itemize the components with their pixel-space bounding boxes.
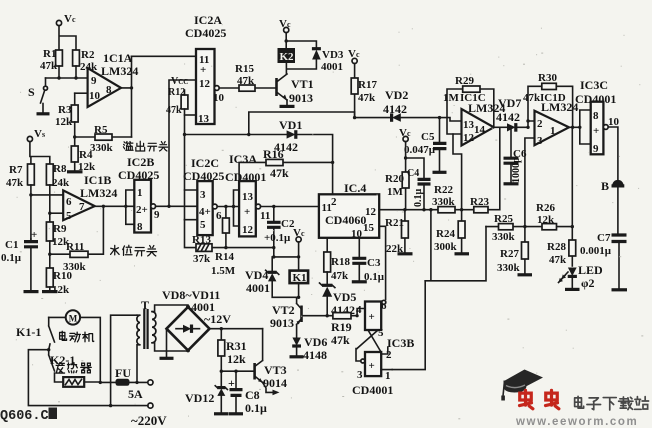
svg-text:R30: R30 xyxy=(538,72,557,84)
wire 9 to IC2C pin4 xyxy=(156,205,198,207)
svg-text:12: 12 xyxy=(242,224,254,236)
capacitor C1 (polarized) xyxy=(1,229,39,292)
svg-text:47k: 47k xyxy=(166,105,182,116)
capacitor C2 0.1u xyxy=(264,207,295,257)
svg-text:2: 2 xyxy=(331,196,337,208)
terminal Vc (top left supply) xyxy=(56,13,76,26)
svg-text:4001: 4001 xyxy=(246,281,270,295)
svg-text:K2: K2 xyxy=(280,51,295,63)
wire U-detour to R24 node xyxy=(425,210,486,281)
transistor VT1 9013 xyxy=(277,74,314,106)
svg-text:+: + xyxy=(200,64,206,76)
svg-text:4148: 4148 xyxy=(303,348,327,362)
svg-text:5: 5 xyxy=(66,210,72,222)
svg-text:IC2A: IC2A xyxy=(194,13,222,27)
resistor R11 330k (hysteresis) xyxy=(50,206,104,273)
svg-text:12: 12 xyxy=(463,132,475,144)
terminal Vs (lower supply) xyxy=(27,128,45,142)
svg-text:R1: R1 xyxy=(43,48,56,60)
resistor R3 xyxy=(55,93,78,137)
svg-text:12: 12 xyxy=(199,78,211,90)
svg-text:7: 7 xyxy=(79,201,85,213)
svg-text:14: 14 xyxy=(474,124,486,136)
svg-text:R16: R16 xyxy=(263,147,284,161)
svg-text:R17: R17 xyxy=(358,79,377,91)
svg-text:VD5: VD5 xyxy=(333,290,356,304)
resistor R16 xyxy=(239,147,333,181)
diode VD2 4142 xyxy=(383,88,408,122)
heater element (发热器) xyxy=(63,377,100,387)
wire IC2A pin13 stub xyxy=(185,114,197,116)
zener VD4 4001 xyxy=(245,268,279,295)
svg-text:CD4025: CD4025 xyxy=(185,26,226,40)
wire R26 node up to output xyxy=(571,127,573,240)
svg-text:C8: C8 xyxy=(245,388,260,402)
svg-text:37k: 37k xyxy=(193,253,211,265)
svg-text:VD12: VD12 xyxy=(185,391,214,405)
resistor R30 47k feedback xyxy=(528,72,573,127)
transistor VT2 9013 xyxy=(270,297,302,337)
resistor R22 330k xyxy=(432,184,456,213)
resistor R24 300k xyxy=(434,210,469,254)
svg-text:10: 10 xyxy=(351,228,363,240)
svg-text:S: S xyxy=(28,85,35,99)
svg-text:13: 13 xyxy=(198,113,210,125)
svg-text:φ2: φ2 xyxy=(581,276,595,290)
svg-text:330k: 330k xyxy=(90,142,114,154)
svg-text:C7: C7 xyxy=(597,232,611,244)
op-amp IC1A LM324 xyxy=(88,51,139,107)
svg-text:330k: 330k xyxy=(432,196,456,208)
NOR gate IC3B upper xyxy=(356,300,387,339)
diode VD1 4142 xyxy=(274,118,302,154)
svg-text:330k: 330k xyxy=(492,231,516,243)
svg-text:0.1μ: 0.1μ xyxy=(413,189,424,208)
resistor R20 1M xyxy=(385,158,409,210)
wire IC2C input bracket pins 3,5 xyxy=(185,190,198,220)
svg-text:9: 9 xyxy=(154,209,160,221)
svg-text:47k: 47k xyxy=(549,254,567,266)
resistor R26 12k xyxy=(536,202,557,230)
svg-text:Vc: Vc xyxy=(348,48,360,60)
wire IC1A out to IC2A pin 11 xyxy=(132,55,197,57)
watermark 电子下载站 gray characters xyxy=(575,396,649,410)
svg-text:M: M xyxy=(69,313,78,323)
switch contact K1-1 xyxy=(16,317,55,349)
wire VT3 base row xyxy=(221,370,254,372)
svg-text:4001: 4001 xyxy=(321,61,343,73)
wire input rail to pin 9 xyxy=(46,77,89,79)
LED phi2 xyxy=(559,263,604,290)
node 9 (IC2B output) xyxy=(151,204,160,221)
resistor R18 47k xyxy=(324,238,351,285)
svg-text:R25: R25 xyxy=(494,213,513,225)
svg-text:2: 2 xyxy=(537,118,543,130)
IC gate IC3C CD4001 xyxy=(575,78,616,155)
wire IC2B input bracket pins 1,8 xyxy=(126,190,135,224)
svg-text:+: + xyxy=(228,376,235,390)
svg-text:+: + xyxy=(593,125,599,137)
svg-text:VT1: VT1 xyxy=(291,77,314,91)
svg-text:K1-1: K1-1 xyxy=(16,325,41,339)
svg-text:5A: 5A xyxy=(128,387,143,401)
svg-text:~12V: ~12V xyxy=(204,312,231,326)
resistor R28 47k xyxy=(547,240,576,266)
resistor R9 xyxy=(46,222,70,268)
svg-text:1: 1 xyxy=(385,370,391,382)
svg-text:12k: 12k xyxy=(537,214,555,226)
svg-text:12: 12 xyxy=(365,206,377,218)
svg-text:1M: 1M xyxy=(387,186,404,198)
wire IC1B output to IC2B xyxy=(95,205,135,207)
svg-text:5: 5 xyxy=(200,219,206,231)
wire cross-coupling X xyxy=(356,330,392,370)
IC gate IC3A CD4001 xyxy=(225,152,266,236)
svg-text:6: 6 xyxy=(66,196,72,208)
svg-text:CD4001: CD4001 xyxy=(352,383,393,397)
label 水位开关 (water level switch) xyxy=(111,245,157,256)
IC counter IC4 CD4060 xyxy=(319,181,379,240)
capacitor C3 0.1u xyxy=(352,238,385,283)
transistor VT3 9014 xyxy=(255,329,287,390)
resistor R8 xyxy=(46,163,70,222)
transformer T xyxy=(111,298,188,406)
svg-text:+: + xyxy=(244,206,250,218)
svg-text:R14: R14 xyxy=(215,251,234,263)
diode VD7 4142 xyxy=(494,96,535,132)
watermark eeworm logo graduation cap xyxy=(501,370,543,401)
svg-text:12k: 12k xyxy=(52,284,70,296)
svg-text:R15: R15 xyxy=(235,63,254,75)
resistor R27 330k xyxy=(497,227,532,275)
svg-text:IC3C: IC3C xyxy=(580,78,608,92)
svg-text:12k: 12k xyxy=(55,116,73,128)
svg-text:47k: 47k xyxy=(358,92,376,104)
svg-text:24k: 24k xyxy=(52,177,70,189)
resistor R14 1.5M xyxy=(211,207,236,278)
svg-text:IC2C: IC2C xyxy=(191,156,219,170)
zener VD5 4142 xyxy=(320,283,357,317)
svg-text:Vc: Vc xyxy=(293,227,305,239)
svg-text:1.5M: 1.5M xyxy=(211,265,236,277)
svg-text:VD7: VD7 xyxy=(498,96,521,110)
wire gate6 output up to IC4 pin15 xyxy=(379,226,385,299)
wire 11 to IC4 xyxy=(261,206,319,208)
svg-text:+0.1μ: +0.1μ xyxy=(264,232,291,244)
svg-text:Vc: Vc xyxy=(279,18,291,30)
svg-text:IC3B: IC3B xyxy=(387,336,414,350)
wire IC1C pin12 to divider xyxy=(453,134,462,210)
svg-text:R8: R8 xyxy=(53,163,67,175)
wire IC3A input bracket xyxy=(234,190,240,226)
capacitor C7 0.001u xyxy=(580,232,627,290)
svg-text:47k: 47k xyxy=(270,166,289,180)
label 电动机 (motor) xyxy=(60,331,94,342)
svg-text:R2: R2 xyxy=(81,49,95,61)
svg-text:K1: K1 xyxy=(293,272,307,284)
wire VT3 emitter output arrow xyxy=(263,383,276,393)
wire IC3C out down to B xyxy=(608,127,618,234)
wire IC4 pin12 line xyxy=(379,127,500,209)
svg-text:LM324: LM324 xyxy=(80,186,117,200)
svg-text:1M: 1M xyxy=(443,92,460,104)
wire +12V rail xyxy=(210,328,263,330)
label 溢出开关 (overflow switch) xyxy=(123,141,167,151)
relay coil K1 xyxy=(290,271,309,284)
svg-text:47k: 47k xyxy=(331,270,349,282)
wire line A (VT1 region to R17 node) xyxy=(249,112,392,135)
svg-text:LED: LED xyxy=(578,263,603,277)
svg-text:0.1μ: 0.1μ xyxy=(364,271,385,283)
svg-text:8: 8 xyxy=(106,84,112,96)
op-amp IC1B LM324 xyxy=(63,173,117,222)
resistor R12 xyxy=(166,87,188,135)
svg-text:47k: 47k xyxy=(523,92,541,104)
svg-text:11: 11 xyxy=(260,210,270,222)
watermark 虫虫 red characters xyxy=(520,390,559,408)
resistor R4 xyxy=(67,137,96,173)
svg-text:22k: 22k xyxy=(386,243,404,255)
motor M xyxy=(66,310,80,324)
svg-text:IC2B: IC2B xyxy=(127,155,154,169)
svg-text:VT3: VT3 xyxy=(264,363,287,377)
svg-text:C3: C3 xyxy=(367,257,381,269)
wire R25/R26 row xyxy=(486,226,572,228)
wire IC1D pin3 down to divider xyxy=(525,138,535,227)
IC gate IC2B CD4025 xyxy=(118,155,159,233)
resistor R10 xyxy=(42,268,72,296)
svg-text:R31: R31 xyxy=(226,339,247,353)
svg-text:9013: 9013 xyxy=(270,316,294,330)
svg-text:5: 5 xyxy=(378,327,384,339)
svg-text:B: B xyxy=(601,179,609,193)
svg-text:1: 1 xyxy=(137,187,143,199)
svg-text:C4: C4 xyxy=(407,168,419,179)
svg-text:2: 2 xyxy=(386,349,392,361)
svg-text:~220V: ~220V xyxy=(131,413,167,428)
svg-text:R7: R7 xyxy=(9,164,23,176)
svg-text:CD4060: CD4060 xyxy=(325,213,366,227)
svg-text:VD3: VD3 xyxy=(322,49,344,61)
svg-text:4+: 4+ xyxy=(199,206,211,218)
svg-text:Vc: Vc xyxy=(399,127,411,139)
svg-text:0.001μ: 0.001μ xyxy=(580,245,612,257)
svg-text:15: 15 xyxy=(363,222,375,234)
capacitor C8 0.1u polarized xyxy=(228,371,267,415)
terminal Vc (K1 rail) xyxy=(293,227,305,257)
svg-text:4142: 4142 xyxy=(383,102,407,116)
wire IC3C input bracket xyxy=(580,110,591,144)
svg-text:1: 1 xyxy=(550,125,556,137)
svg-text:0.1μ: 0.1μ xyxy=(1,252,22,264)
svg-text:R19: R19 xyxy=(331,320,352,334)
wire line B (VD1 line) xyxy=(185,135,333,195)
capacitor C4 0.1u xyxy=(407,168,431,210)
svg-text:Vc: Vc xyxy=(64,13,76,25)
svg-text:C1: C1 xyxy=(5,239,18,251)
wire 6 to IC3A xyxy=(217,206,239,208)
svg-text:C5: C5 xyxy=(421,131,435,143)
svg-text:47k: 47k xyxy=(6,177,24,189)
svg-text:IC.4: IC.4 xyxy=(344,181,366,195)
node 10 (IC2A output) xyxy=(213,86,225,104)
svg-text:0.047μ: 0.047μ xyxy=(404,144,436,156)
svg-text:47k: 47k xyxy=(331,333,350,347)
svg-text:VD4: VD4 xyxy=(245,268,268,282)
resistor R31 12k xyxy=(218,329,247,372)
svg-text:10: 10 xyxy=(89,90,101,102)
zener VD12 xyxy=(185,371,229,414)
svg-text:+: + xyxy=(31,229,37,241)
svg-text:13: 13 xyxy=(242,191,254,203)
svg-text:3: 3 xyxy=(357,369,363,381)
svg-text:R18: R18 xyxy=(331,256,350,268)
svg-text:FU: FU xyxy=(115,366,131,380)
fuse FU 5A xyxy=(100,366,153,401)
terminal Vc (C4/R20 divider) xyxy=(399,127,424,179)
wire left mains branch xyxy=(28,350,48,405)
svg-text:300k: 300k xyxy=(434,241,458,253)
svg-text:IC3A: IC3A xyxy=(229,152,257,166)
resistor R23 xyxy=(470,196,489,213)
svg-text:R26: R26 xyxy=(536,202,555,214)
resistor R5 330k feedback xyxy=(75,124,132,154)
svg-text:LM324: LM324 xyxy=(101,64,138,78)
svg-text:R4: R4 xyxy=(79,149,93,161)
wire pin 10 row / R3 xyxy=(75,92,88,94)
svg-text:4142: 4142 xyxy=(496,110,520,124)
node 10 (IC3C output) xyxy=(603,116,619,129)
wire R12 node down to IC2C pin3 bracket xyxy=(184,135,186,220)
terminal Vc (R17 top) xyxy=(348,48,360,64)
svg-text:12k: 12k xyxy=(227,352,246,366)
terminal Vc (VT1 supply) xyxy=(279,18,291,33)
svg-text:VD2: VD2 xyxy=(385,88,408,102)
svg-text:R13: R13 xyxy=(192,234,211,246)
svg-text:R21: R21 xyxy=(385,217,404,229)
svg-text:VD6: VD6 xyxy=(304,335,327,349)
switch contact K2-1 xyxy=(49,350,76,382)
IC buffer IC2A CD4025 xyxy=(185,13,226,125)
svg-text:3: 3 xyxy=(200,189,206,201)
svg-text:R29: R29 xyxy=(455,75,474,87)
wire VD2 to IC1C pin13 xyxy=(401,118,462,121)
resistor R17 xyxy=(351,64,377,118)
svg-text:13: 13 xyxy=(463,119,475,131)
svg-text:1C1A: 1C1A xyxy=(103,51,133,65)
switch S xyxy=(28,78,50,114)
svg-text:9: 9 xyxy=(593,143,599,155)
wire IC2A pin12 stub down to node 9 row xyxy=(169,80,196,206)
svg-text:VD1: VD1 xyxy=(279,118,302,132)
wire K2/VD3 loop xyxy=(286,33,316,74)
svg-text:R3: R3 xyxy=(58,104,72,116)
resistor R7 xyxy=(6,164,34,239)
node bottom-gate output bubble xyxy=(361,359,365,363)
node 6 (IC2C output) xyxy=(212,204,222,222)
capacitor C6 1000p xyxy=(504,127,527,184)
svg-text:www.eeworm.com: www.eeworm.com xyxy=(515,416,638,428)
capacitor C5 0.047u xyxy=(404,118,447,173)
resistor R29 1M feedback xyxy=(447,75,494,134)
terminal ~220V xyxy=(28,403,167,428)
svg-text:12k: 12k xyxy=(78,161,96,173)
svg-text:4: 4 xyxy=(356,304,362,316)
bridge rectifier VD8~VD11 4001 xyxy=(160,288,232,358)
svg-text:IC1B: IC1B xyxy=(84,173,111,187)
svg-text:Vs: Vs xyxy=(34,128,45,140)
svg-text:R5: R5 xyxy=(94,124,108,136)
svg-text:R9: R9 xyxy=(53,223,67,235)
resistor R25 330k xyxy=(492,213,516,243)
label Q606.COM watermark xyxy=(0,408,57,425)
IC gate IC2C CD4025 xyxy=(183,156,224,235)
svg-text:47k: 47k xyxy=(237,75,255,87)
svg-text:1000p: 1000p xyxy=(511,157,522,183)
relay coil K2 xyxy=(278,48,296,63)
wire VT2 base row xyxy=(303,309,365,316)
svg-text:8: 8 xyxy=(593,110,599,122)
resistor R13 37k (osc) xyxy=(185,220,274,265)
resistor R15 xyxy=(219,63,276,91)
svg-text:VT2: VT2 xyxy=(272,303,295,317)
svg-text:R24: R24 xyxy=(436,228,455,240)
svg-text:R23: R23 xyxy=(470,196,489,208)
resistor R2 xyxy=(73,49,98,78)
wire Vc to R1/R2 tops xyxy=(59,26,76,50)
wire K1/VD4 loop xyxy=(272,257,298,297)
svg-text:+: + xyxy=(369,360,375,372)
wire Vs to R7/R8 xyxy=(30,142,50,164)
svg-text:2+: 2+ xyxy=(136,204,148,216)
svg-text:R27: R27 xyxy=(500,248,519,260)
svg-text:VCC: VCC xyxy=(171,76,188,87)
svg-text:9: 9 xyxy=(91,75,97,87)
resistor R21 22k xyxy=(385,210,413,255)
wire IC1D output to IC3C xyxy=(569,126,580,128)
electrode B xyxy=(601,179,624,193)
svg-text:47k: 47k xyxy=(40,60,58,72)
svg-text:10: 10 xyxy=(213,92,225,104)
label 发热器 (heater) xyxy=(56,362,91,373)
resistor R19 47k xyxy=(331,313,352,347)
op-amp IC1C LM324 xyxy=(443,92,505,146)
diode VD3 4001 xyxy=(312,49,344,73)
svg-text:+: + xyxy=(369,311,375,323)
wire flip-flop output up xyxy=(392,281,425,370)
svg-text:9013: 9013 xyxy=(289,91,313,105)
svg-text:R11: R11 xyxy=(66,241,84,253)
svg-text:Q606.C: Q606.C xyxy=(0,409,49,424)
svg-text:R28: R28 xyxy=(547,241,566,253)
svg-text:330k: 330k xyxy=(497,262,521,274)
svg-text:R20: R20 xyxy=(385,173,404,185)
resistor R1 xyxy=(40,48,62,78)
svg-text:0.1μ: 0.1μ xyxy=(245,401,267,415)
NOR gate IC3B lower xyxy=(352,336,414,397)
svg-text:8: 8 xyxy=(137,221,143,233)
wire pin6 row xyxy=(31,194,63,196)
svg-text:R10: R10 xyxy=(53,270,72,282)
node 11 (IC3A output) xyxy=(256,204,271,222)
wire IC1A output node xyxy=(121,56,132,137)
op-amp IC1D LM324 xyxy=(523,92,578,147)
svg-text:3: 3 xyxy=(537,135,543,147)
wire pin5 row xyxy=(50,212,63,214)
svg-text:6: 6 xyxy=(216,210,222,222)
svg-text:R22: R22 xyxy=(434,184,453,196)
wire motor loop xyxy=(49,317,101,382)
